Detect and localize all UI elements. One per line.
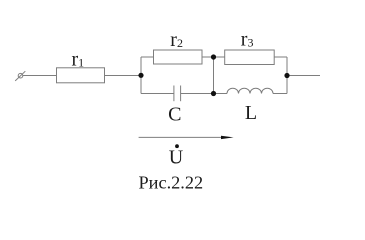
input terminal xyxy=(18,73,23,78)
node B junction dot xyxy=(211,54,216,59)
wire capacitor to node C xyxy=(181,93,214,95)
label U dot xyxy=(175,144,179,148)
svg-text:C: C xyxy=(168,103,181,125)
wire node B to node C vertical xyxy=(213,57,215,94)
wire r1 to node A xyxy=(105,75,142,77)
wire to r2 xyxy=(141,56,154,58)
svg-text:U: U xyxy=(169,147,184,169)
wire node A to capacitor xyxy=(141,93,174,95)
wire inductor to right column xyxy=(273,93,287,95)
resistor r3 xyxy=(225,50,275,65)
resistor r1 xyxy=(57,68,105,83)
svg-text:L: L xyxy=(245,102,257,124)
arrow U xyxy=(139,136,234,139)
inductor L xyxy=(227,88,273,93)
node D junction dot xyxy=(284,73,289,78)
capacitor C xyxy=(173,86,175,102)
node C junction dot xyxy=(211,91,216,96)
wire r3 to right column xyxy=(274,56,287,58)
wire node A vertical xyxy=(140,57,142,94)
wire input to r1 xyxy=(23,75,57,77)
wire right column vertical xyxy=(286,57,288,94)
wire r2 to node B xyxy=(202,56,214,58)
wire node C to inductor xyxy=(214,93,228,95)
node A junction dot xyxy=(138,73,143,78)
resistor r2 xyxy=(154,50,203,64)
svg-text:Рис.2.22: Рис.2.22 xyxy=(139,173,204,193)
wire node B to r3 xyxy=(214,56,225,58)
output wire xyxy=(287,75,320,77)
